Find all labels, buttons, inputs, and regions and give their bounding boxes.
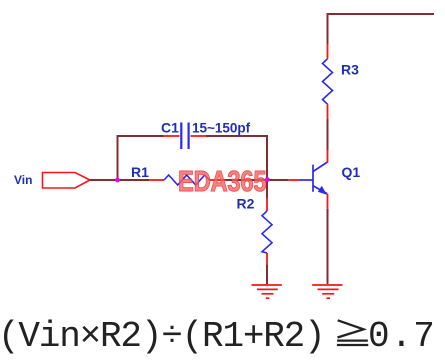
formula greater-or-equal symbol [337, 320, 368, 345]
ground 1 [252, 285, 282, 298]
resistor R3 pin 1 [327, 44, 329, 59]
port Vin [43, 173, 91, 189]
svg-text:Vin: Vin [14, 173, 32, 187]
wire R1 to junction B [226, 179, 268, 181]
wire top rail [327, 13, 435, 15]
resistor R2 pin 2 [266, 253, 268, 265]
wire port to junction A [90, 179, 118, 181]
ground 2 [312, 285, 342, 298]
transistor Q1 emitter pin [327, 194, 329, 209]
wire junction B to Q1 base [267, 179, 288, 181]
transistor Q1 emitter arrow [318, 186, 327, 195]
wire riser junction A up [117, 135, 119, 181]
resistor R1 body [164, 175, 210, 185]
junction B dot [265, 177, 270, 182]
wire C1 to right corner [206, 135, 268, 137]
transistor Q1 collector pin [327, 150, 329, 163]
wire collector to R3 [327, 118, 329, 150]
junction A dot [115, 178, 120, 183]
resistor R2 body [262, 211, 272, 253]
wire junction B down to R2 [266, 180, 268, 198]
svg-text:C1: C1 [161, 120, 179, 136]
svg-text:0.7: 0.7 [368, 316, 436, 357]
svg-text:EDA365: EDA365 [178, 165, 267, 198]
wire emitter to ground 2 [327, 209, 329, 284]
transistor Q1 body [300, 162, 328, 194]
svg-text:R1: R1 [131, 164, 149, 180]
resistor R1 pin 1 [149, 179, 164, 181]
wire top-left to C1 [117, 135, 164, 137]
svg-text:Q1: Q1 [342, 164, 361, 180]
wire right riser down to junction B [266, 135, 268, 180]
svg-text:R2: R2 [237, 196, 255, 212]
capacitor C1 pin 2 [191, 135, 207, 137]
resistor R1 pin 2 [210, 179, 226, 181]
resistor R2 pin 1 [266, 198, 268, 212]
wire junction A to R1 [118, 179, 150, 181]
wire R2 to ground 1 [266, 265, 268, 284]
resistor R3 body [323, 59, 333, 104]
capacitor C1 plates [181, 123, 188, 150]
transistor Q1 base pin [288, 179, 301, 181]
svg-text:15~150pf: 15~150pf [192, 121, 251, 136]
wire R3 up to corner [327, 13, 329, 44]
svg-text:R3: R3 [341, 62, 359, 78]
capacitor C1 pin 1 [164, 135, 180, 137]
svg-text:(Vin×R2)÷(R1+R2): (Vin×R2)÷(R1+R2) [0, 316, 324, 357]
resistor R3 pin 2 [327, 104, 329, 118]
